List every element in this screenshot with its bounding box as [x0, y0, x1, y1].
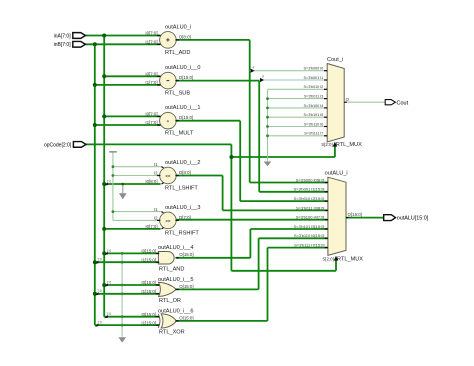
svg-text:O[7:0]: O[7:0] [179, 215, 191, 220]
svg-text:O[15:0]: O[15:0] [179, 315, 193, 320]
svg-text:S=3'b010 I2[15:0]: S=3'b010 I2[15:0] [294, 196, 325, 201]
svg-text:RTL_MUX: RTL_MUX [336, 142, 362, 148]
svg-text:S=3'b011 I3: S=3'b011 I3 [304, 94, 323, 99]
svg-text:RTL_MULT: RTL_MULT [165, 131, 194, 137]
svg-text:7:0: 7:0 [97, 321, 102, 325]
svg-text:S=3'b001 I1[15:0]: S=3'b001 I1[15:0] [294, 187, 325, 192]
svg-text:<<: << [165, 173, 171, 178]
svg-text:outALU0_i__1: outALU0_i__1 [165, 105, 200, 111]
svg-text:opCode[2:0]: opCode[2:0] [44, 142, 72, 148]
svg-text:I2: I2 [154, 216, 158, 221]
svg-text:I0[7:0]: I0[7:0] [145, 72, 157, 77]
svg-text:outALU_i: outALU_i [325, 171, 348, 177]
svg-text:7:0: 7:0 [107, 280, 112, 284]
svg-text:I0[7:0]: I0[7:0] [145, 112, 157, 117]
svg-text:O[15:0]: O[15:0] [179, 75, 193, 80]
svg-text:RTL_ADD: RTL_ADD [165, 50, 190, 56]
svg-text:RTL_AND: RTL_AND [159, 266, 184, 272]
svg-text:7:0: 7:0 [107, 312, 112, 316]
svg-text:outALU0_i__0: outALU0_i__0 [165, 65, 200, 71]
svg-text:I1[7:0]: I1[7:0] [145, 40, 157, 45]
svg-text:7:0: 7:0 [97, 258, 102, 262]
svg-text:I0[7:0]: I0[7:0] [145, 31, 157, 36]
svg-text:Cout_i: Cout_i [327, 57, 343, 63]
svg-text:S=3'b111 I7: S=3'b111 I7 [304, 131, 323, 136]
svg-text:S=3'b101 I5: S=3'b101 I5 [304, 112, 324, 117]
svg-text:7:0: 7:0 [107, 249, 112, 253]
svg-text:I0[15:0]: I0[15:0] [141, 312, 156, 317]
svg-text:I0[7:0]: I0[7:0] [145, 224, 157, 229]
svg-text:S[2:0]: S[2:0] [321, 142, 332, 147]
svg-text:RTL_SUB: RTL_SUB [165, 91, 190, 97]
svg-text:I2: I2 [154, 171, 158, 176]
svg-text:RTL_OR: RTL_OR [159, 298, 181, 304]
svg-text:I1[7:0]: I1[7:0] [145, 80, 157, 85]
svg-text:S=3'b100 I4[7:0]: S=3'b100 I4[7:0] [296, 215, 325, 220]
svg-text:S=3'b010 I2: S=3'b010 I2 [304, 84, 324, 89]
svg-text:S=3'b110 I6: S=3'b110 I6 [304, 121, 323, 126]
svg-text:outALU0_i__6: outALU0_i__6 [158, 308, 193, 314]
svg-text:outALU0_i__3: outALU0_i__3 [165, 205, 200, 211]
svg-text:>>: >> [165, 218, 171, 223]
svg-text:O: O [346, 97, 350, 102]
svg-text:inA[7:0]: inA[7:0] [54, 33, 72, 39]
svg-text:7:0: 7:0 [97, 289, 102, 293]
svg-text:S=3'b000 I0: S=3'b000 I0 [304, 66, 325, 71]
svg-text:outALU0_i__5: outALU0_i__5 [158, 277, 193, 283]
svg-text:O[8:0]: O[8:0] [179, 34, 191, 39]
svg-text:O[15:0]: O[15:0] [179, 284, 193, 289]
svg-text:I1[15:0]: I1[15:0] [141, 289, 156, 294]
svg-text:outALU0_i__2: outALU0_i__2 [165, 160, 200, 166]
svg-text:I0[8:0]: I0[8:0] [145, 179, 157, 184]
svg-text:I0[15:0]: I0[15:0] [141, 249, 156, 254]
svg-text:I1[15:0]: I1[15:0] [141, 257, 156, 262]
svg-text:S=3'b011 I3[8:0]: S=3'b011 I3[8:0] [296, 205, 324, 210]
svg-text:RTL_LSHIFT: RTL_LSHIFT [165, 185, 198, 191]
svg-text:I1[15:0]: I1[15:0] [141, 320, 156, 325]
svg-text:I1: I1 [154, 207, 158, 212]
svg-text:RTL_MUX: RTL_MUX [337, 256, 363, 262]
svg-text:S=3'b101 I5[15:0]: S=3'b101 I5[15:0] [294, 224, 325, 229]
svg-text:S=3'b001 I1: S=3'b001 I1 [304, 75, 324, 80]
svg-text:outALU0_i__4: outALU0_i__4 [158, 245, 193, 251]
svg-text:S=3'b110 I6[15:0]: S=3'b110 I6[15:0] [294, 233, 325, 238]
svg-text:outALU[15:0]: outALU[15:0] [397, 216, 429, 222]
svg-text:O[15:0]: O[15:0] [348, 212, 362, 217]
svg-text:O[8:0]: O[8:0] [179, 170, 191, 175]
svg-text:S[2:0]: S[2:0] [322, 256, 333, 261]
svg-text:I1[7:0]: I1[7:0] [145, 120, 157, 125]
svg-text:S=3'b000 I0[8:0]: S=3'b000 I0[8:0] [296, 177, 325, 182]
svg-text:S=3'b100 I4: S=3'b100 I4 [304, 103, 325, 108]
svg-text:outALU0_i: outALU0_i [165, 24, 191, 30]
svg-text:7:0: 7:0 [107, 179, 112, 183]
svg-text:Cout: Cout [397, 100, 409, 106]
svg-text:I0[15:0]: I0[15:0] [141, 280, 156, 285]
svg-text:RTL_RSHIFT: RTL_RSHIFT [165, 230, 199, 236]
svg-text:S=3'b111 I7[15:0]: S=3'b111 I7[15:0] [294, 243, 324, 248]
svg-text:O[15:0]: O[15:0] [179, 115, 193, 120]
svg-text:inB[7:0]: inB[7:0] [54, 42, 72, 48]
svg-text:O[15:0]: O[15:0] [179, 252, 193, 257]
svg-text:I1: I1 [154, 162, 158, 167]
svg-text:RTL_XOR: RTL_XOR [159, 330, 185, 336]
